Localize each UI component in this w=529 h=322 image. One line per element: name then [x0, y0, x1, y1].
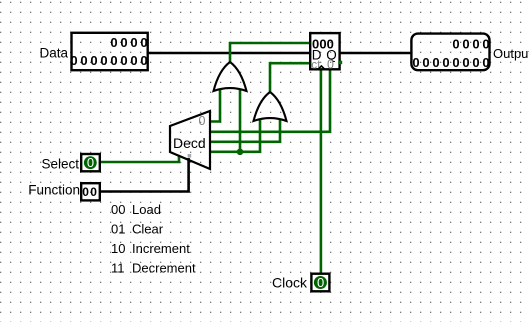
svg-text:Clock: Clock: [272, 275, 308, 291]
svg-text:Decd: Decd: [173, 135, 206, 151]
svg-text:Increment: Increment: [132, 241, 190, 256]
svg-text:Select: Select: [41, 156, 79, 171]
svg-text:00: 00: [111, 202, 125, 217]
svg-text:Clear: Clear: [132, 222, 164, 237]
svg-text:11: 11: [111, 261, 125, 276]
svg-text:Data: Data: [39, 46, 68, 61]
svg-text:10: 10: [111, 241, 125, 256]
svg-text:01: 01: [111, 222, 125, 237]
svg-text:0: 0: [317, 275, 324, 290]
svg-text:ct: ct: [311, 57, 321, 71]
svg-text:Load: Load: [132, 202, 161, 217]
svg-text:0: 0: [327, 57, 334, 71]
svg-text:0: 0: [199, 114, 206, 128]
svg-text:Decrement: Decrement: [132, 261, 196, 276]
svg-text:0: 0: [90, 185, 97, 199]
svg-text:0: 0: [82, 185, 89, 199]
svg-text:Output: Output: [493, 46, 529, 61]
svg-text:0: 0: [87, 155, 94, 170]
svg-text:Function: Function: [28, 182, 80, 197]
